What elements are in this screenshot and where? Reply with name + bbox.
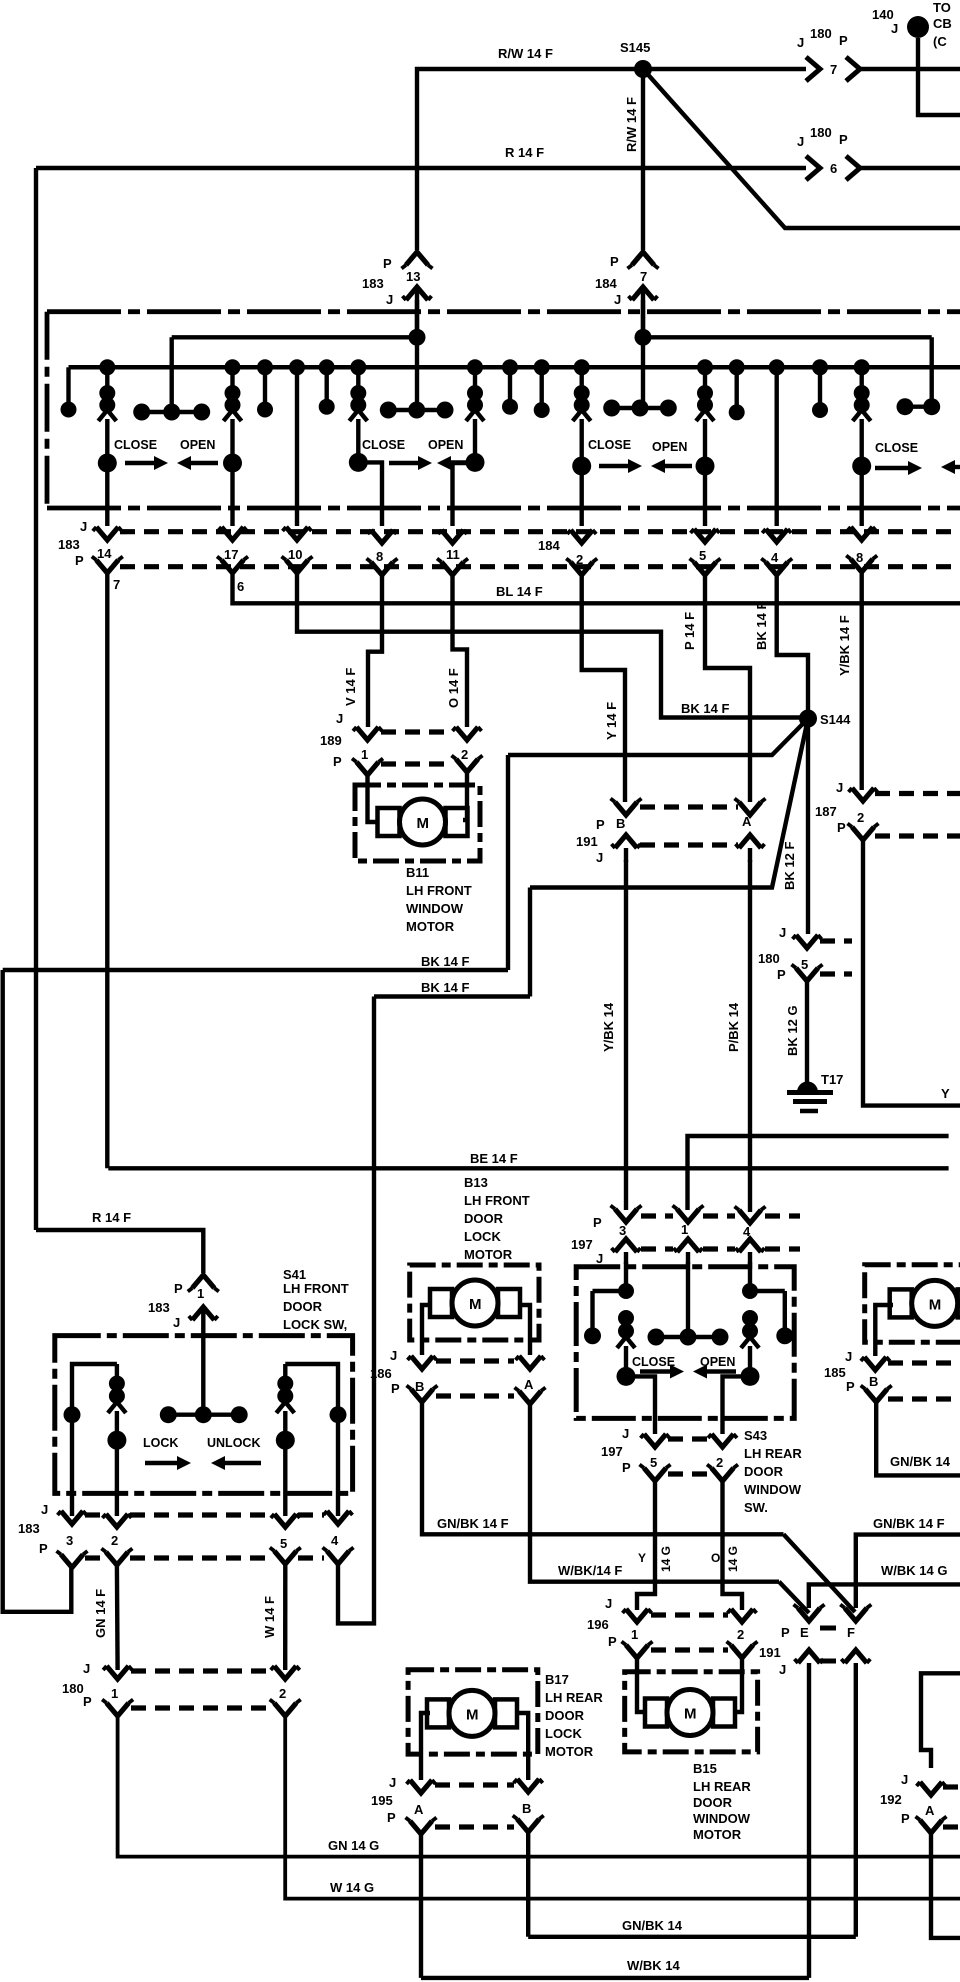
switch S1 common 3-dot row — [142, 410, 202, 414]
svg-text:W/BK 14 G: W/BK 14 G — [881, 1563, 947, 1578]
S43 open wiper wire down — [723, 1376, 751, 1434]
svg-text:J: J — [901, 1772, 908, 1787]
switch S1 close contact column — [99, 359, 115, 375]
wire B17-B down to GN/BK 14 — [526, 1832, 530, 1937]
svg-text:R 14 F: R 14 F — [505, 145, 544, 160]
svg-text:196: 196 — [587, 1617, 609, 1632]
B17 pin wires — [421, 1713, 430, 1780]
svg-text:A: A — [925, 1803, 935, 1818]
svg-text:J: J — [80, 519, 87, 534]
connector 189 pin 1 — [357, 727, 379, 740]
svg-text:J: J — [336, 711, 343, 726]
S43 close arrow — [640, 1369, 674, 1373]
svg-text:W/BK 14: W/BK 14 — [627, 1958, 681, 1973]
wire GN/BK 14 F from B13-B — [422, 1402, 784, 1534]
svg-text:P: P — [383, 256, 392, 271]
svg-text:O: O — [711, 1551, 720, 1565]
through wire pin10 top — [289, 359, 305, 375]
wire R 14 F horizontal — [36, 166, 806, 170]
connector J187 pin 2 — [852, 788, 874, 801]
wire W/BK/14 F from B13-A — [530, 1404, 779, 1582]
svg-text:8: 8 — [376, 549, 383, 564]
svg-text:P: P — [781, 1625, 790, 1640]
svg-text:2: 2 — [737, 1627, 744, 1642]
svg-text:P: P — [777, 967, 786, 982]
BK 14 F wire 2 horizontal — [374, 994, 530, 998]
S3 pins down — [580, 466, 584, 526]
svg-text:M: M — [469, 1296, 482, 1313]
stub contact x820 — [812, 359, 828, 375]
svg-text:LH REAR: LH REAR — [693, 1779, 751, 1794]
J184 pin 8 — [851, 527, 873, 540]
svg-text:187: 187 — [815, 804, 837, 819]
wire pin14 down long (to BE line) — [105, 573, 109, 1168]
svg-text:P: P — [333, 754, 342, 769]
connector 191 pin E — [798, 1608, 820, 1621]
svg-text:5: 5 — [801, 957, 808, 972]
arrow close S1 — [125, 461, 158, 465]
S4 pin down — [860, 466, 864, 526]
right motor pin wire — [875, 1305, 893, 1356]
svg-text:W 14 F: W 14 F — [262, 1596, 277, 1638]
svg-text:OPEN: OPEN — [428, 438, 463, 452]
wire F down to GN/BK 14 bottom — [854, 1674, 858, 1937]
svg-text:LH FRONT: LH FRONT — [406, 883, 472, 898]
svg-text:192: 192 — [880, 1792, 902, 1807]
svg-text:180: 180 — [758, 951, 780, 966]
svg-text:GN/BK 14 F: GN/BK 14 F — [437, 1516, 509, 1531]
connector J180 pin 5 to ground — [796, 935, 818, 948]
wire pin10 to S144 — [297, 573, 806, 718]
svg-text:183: 183 — [18, 1521, 40, 1536]
svg-text:189: 189 — [320, 733, 342, 748]
S43 pin4 column — [748, 1262, 752, 1291]
svg-text:LOCK: LOCK — [545, 1726, 582, 1741]
B13 motor — [410, 1265, 539, 1340]
svg-text:Y: Y — [638, 1551, 646, 1565]
wire E down to W/BK 14 bottom — [807, 1674, 811, 1978]
svg-text:BK 14 F: BK 14 F — [754, 602, 769, 650]
svg-text:B11: B11 — [406, 865, 429, 880]
svg-text:MOTOR: MOTOR — [406, 919, 455, 934]
switch S3 close contact column — [574, 359, 590, 375]
connector 189 pin 2 — [456, 727, 478, 740]
svg-text:LH FRONT: LH FRONT — [464, 1193, 530, 1208]
wire after pin6 to right edge — [860, 166, 960, 170]
svg-text:MOTOR: MOTOR — [464, 1247, 513, 1262]
svg-text:TO: TO — [933, 0, 951, 15]
svg-text:2: 2 — [716, 1455, 723, 1470]
svg-text:Y/BK 14 F: Y/BK 14 F — [837, 615, 852, 676]
svg-text:CLOSE: CLOSE — [588, 438, 631, 452]
B13 pin wires — [422, 1305, 429, 1355]
wire GN/BK 14 F right segment — [856, 1535, 960, 1608]
svg-text:184: 184 — [595, 276, 617, 291]
svg-text:LH REAR: LH REAR — [744, 1446, 802, 1461]
S2 open wiper elbow to pin11 — [453, 462, 476, 526]
svg-text:P: P — [837, 820, 846, 835]
connector 183 pin 13 — [406, 252, 428, 265]
stub contact x265 — [257, 359, 273, 375]
svg-text:(C: (C — [933, 34, 947, 49]
J183 pin 14 — [96, 527, 118, 540]
S41 center wire and 3-dot common — [201, 1340, 205, 1415]
B15 motor — [625, 1672, 758, 1752]
switch S1 open contact column — [225, 359, 241, 375]
wire Y 14 F pin2-184 to 191-B — [582, 575, 625, 802]
svg-text:191: 191 — [759, 1645, 781, 1660]
svg-text:S145: S145 — [620, 40, 650, 55]
svg-text:186: 186 — [370, 1366, 392, 1381]
ground T17 — [797, 1082, 818, 1093]
stub contact x510 — [502, 359, 518, 375]
splice S145 — [634, 60, 652, 78]
J183 pin 8 — [371, 530, 393, 543]
switch S2 open contact column — [467, 359, 483, 375]
wire Y/BK 14 from 191-B down to S43-3 — [624, 860, 628, 1210]
svg-text:WINDOW: WINDOW — [744, 1482, 802, 1497]
J183 pin 10 — [286, 527, 308, 540]
svg-text:J: J — [390, 1348, 397, 1363]
svg-text:J: J — [797, 35, 804, 50]
191 EF dashed rows — [820, 1626, 846, 1631]
svg-text:P: P — [622, 1460, 631, 1475]
svg-text:J: J — [614, 292, 621, 307]
svg-text:P: P — [610, 254, 619, 269]
svg-text:M: M — [684, 1706, 697, 1723]
svg-text:OPEN: OPEN — [180, 438, 215, 452]
svg-text:1: 1 — [681, 1222, 688, 1237]
switch S3 common 3-dot row — [612, 406, 669, 410]
svg-text:WINDOW: WINDOW — [693, 1811, 751, 1826]
svg-text:BE 14 F: BE 14 F — [470, 1151, 518, 1166]
stub contact x541 — [534, 359, 550, 375]
svg-text:CLOSE: CLOSE — [875, 441, 918, 455]
svg-text:183: 183 — [58, 537, 80, 552]
wire after pin7 to right edge — [860, 67, 960, 71]
wire B17-A down to W/BK 14 — [419, 1834, 423, 1978]
svg-text:O 14 F: O 14 F — [446, 668, 461, 708]
switch S4 common pair — [905, 405, 932, 409]
svg-text:B: B — [522, 1801, 531, 1816]
svg-text:140: 140 — [872, 7, 894, 22]
svg-text:P: P — [83, 1694, 92, 1709]
svg-text:UNLOCK: UNLOCK — [207, 1436, 260, 1450]
switch S2 close contact column — [350, 359, 366, 375]
svg-text:B15: B15 — [693, 1761, 717, 1776]
svg-text:183: 183 — [362, 276, 384, 291]
svg-text:Y/BK 14: Y/BK 14 — [601, 1002, 616, 1052]
arrow open S1 — [187, 461, 218, 465]
wire R/W 14 F from window switch to S145 — [417, 69, 643, 250]
right motor box (RH) — [865, 1265, 960, 1343]
arrow open S2 — [447, 461, 480, 465]
svg-text:J: J — [779, 925, 786, 940]
svg-text:M: M — [417, 815, 430, 832]
svg-text:Y: Y — [941, 1086, 950, 1101]
splice S144 — [799, 710, 817, 728]
connector 183 pin 1 (S41) — [192, 1275, 214, 1288]
svg-text:B: B — [616, 816, 625, 831]
svg-text:BK 14 F: BK 14 F — [421, 954, 469, 969]
svg-text:CB: CB — [933, 16, 952, 31]
svg-text:LH REAR: LH REAR — [545, 1690, 603, 1705]
vertical of BK ground wire 1 — [506, 755, 510, 970]
svg-text:J: J — [605, 1596, 612, 1611]
wire P/BK 14 from 191-A down to S43-4 — [748, 860, 752, 1212]
svg-text:J: J — [83, 1661, 90, 1676]
S43 open arrow — [703, 1369, 736, 1373]
connector 191 pin F — [845, 1608, 867, 1621]
svg-text:17: 17 — [224, 547, 238, 562]
arrow close S2 — [389, 461, 422, 465]
wire W/BK 14 right segment — [809, 1584, 960, 1608]
svg-text:LH FRONT: LH FRONT — [283, 1281, 349, 1296]
svg-text:P: P — [593, 1215, 602, 1230]
through wire pin4 top — [769, 359, 785, 375]
wire from circuit breaker down and right — [918, 38, 960, 115]
svg-text:MOTOR: MOTOR — [545, 1744, 594, 1759]
arrow close S4 — [875, 466, 912, 470]
svg-text:J: J — [797, 134, 804, 149]
svg-text:W 14 G: W 14 G — [330, 1880, 374, 1895]
wire 192-A down to bottom right — [931, 1833, 960, 1938]
svg-text:P/BK 14: P/BK 14 — [726, 1002, 741, 1052]
svg-text:P: P — [839, 33, 848, 48]
svg-text:GN 14 F: GN 14 F — [93, 1589, 108, 1638]
wire GN/BK 14 bottom — [528, 1935, 856, 1939]
svg-text:LOCK SW,: LOCK SW, — [283, 1317, 347, 1332]
S43 pin3 column — [624, 1262, 628, 1291]
svg-text:3: 3 — [619, 1223, 626, 1238]
svg-text:2: 2 — [111, 1533, 118, 1548]
svg-text:P: P — [39, 1541, 48, 1556]
svg-text:6: 6 — [830, 161, 837, 176]
switch assembly dash-dot border bottom — [47, 506, 960, 511]
connector J180 pin 6 (inline) — [806, 156, 820, 180]
svg-text:M: M — [466, 1706, 479, 1723]
svg-text:13: 13 — [406, 269, 420, 284]
svg-text:180: 180 — [810, 26, 832, 41]
svg-text:2: 2 — [857, 810, 864, 825]
B17 motor — [408, 1670, 538, 1754]
svg-text:BK 14 F: BK 14 F — [681, 701, 729, 716]
B11 motor — [355, 785, 480, 861]
wire S145 down to connector 184 — [641, 69, 645, 250]
svg-text:2: 2 — [461, 747, 468, 762]
svg-text:B: B — [869, 1374, 878, 1389]
svg-text:F: F — [847, 1625, 855, 1640]
vertical of BK ground wire 2 — [528, 888, 532, 997]
wire BK 12 G to T17 — [805, 981, 809, 1086]
B11 pin wires — [368, 775, 378, 822]
svg-text:A: A — [742, 814, 752, 829]
wire BL 14 F pin17 — [233, 573, 960, 603]
diagonal ground wire 1 from S144 — [508, 719, 808, 756]
switch assembly dash-dot border top — [47, 309, 960, 314]
svg-text:A: A — [524, 1377, 534, 1392]
wire W/BK 14 bottom — [421, 1976, 809, 1980]
J183 pin 17 — [222, 527, 244, 540]
svg-text:5: 5 — [650, 1455, 657, 1470]
wire GN 14 G — [118, 1716, 960, 1857]
svg-text:R/W 14 F: R/W 14 F — [498, 46, 553, 61]
wire to connector 192-A from right edge — [921, 1673, 960, 1768]
svg-text:LOCK: LOCK — [143, 1436, 178, 1450]
diagonal wire from S145 to right edge — [643, 69, 960, 228]
BK wire 2 vertical to S41 pin4 — [338, 997, 374, 1624]
svg-text:GN 14 G: GN 14 G — [328, 1838, 379, 1853]
svg-text:J: J — [41, 1502, 48, 1517]
svg-text:LOCK: LOCK — [464, 1229, 501, 1244]
B15 pin wires — [637, 1658, 645, 1712]
svg-text:11: 11 — [446, 547, 460, 562]
svg-text:Y 14 F: Y 14 F — [604, 702, 619, 740]
wire W 14 G — [285, 1716, 960, 1899]
wire GN/BK 14 from right motor — [876, 1402, 960, 1475]
svg-text:CLOSE: CLOSE — [114, 438, 157, 452]
J183 pin 11 — [442, 530, 464, 543]
node: jumper wire sections 3-4 common — [635, 329, 652, 346]
wire R 14 F to S41 pin1 — [36, 1230, 203, 1273]
svg-text:P: P — [596, 817, 605, 832]
svg-text:GN/BK 14 F: GN/BK 14 F — [873, 1516, 945, 1531]
diagonal GN/BK to F — [784, 1534, 856, 1612]
wire W 14 F S41-5 to J180-2 — [283, 1564, 287, 1670]
switch assembly dash-dot border left — [45, 312, 50, 508]
svg-text:191: 191 — [576, 834, 598, 849]
P row chevrons — [96, 560, 118, 573]
BK wire 1 left vertical to S41 pin3 — [3, 970, 72, 1612]
svg-text:S144: S144 — [820, 712, 851, 727]
J row dashed line — [120, 529, 960, 534]
svg-text:BK 12 G: BK 12 G — [785, 1005, 800, 1056]
connector J180 pin 7 (inline) — [806, 57, 820, 81]
svg-text:4: 4 — [771, 550, 779, 565]
S1 pins down through border — [105, 463, 109, 526]
svg-text:3: 3 — [66, 1533, 73, 1548]
diagonal ground wire 2 from S144 — [530, 719, 808, 888]
svg-text:1: 1 — [631, 1627, 638, 1642]
J184 pin 5 — [694, 529, 716, 542]
svg-text:197: 197 — [571, 1237, 593, 1252]
S41 right contact column — [285, 1364, 338, 1415]
svg-text:V 14 F: V 14 F — [343, 668, 358, 706]
stub contact x736 — [729, 359, 745, 375]
supply bus wire in switch — [69, 365, 960, 370]
svg-text:180: 180 — [62, 1681, 84, 1696]
wire to S43 pin1 top — [688, 1136, 949, 1210]
connector 191 pin B — [615, 802, 637, 815]
svg-text:P 14 F: P 14 F — [682, 612, 697, 650]
BK 14 F wire 1 horizontal — [3, 968, 508, 972]
wire R/W 14 F from S145 to connector — [643, 67, 806, 71]
svg-text:DOOR: DOOR — [744, 1464, 784, 1479]
wire V 14 F pin8 to B11-1 — [368, 575, 382, 727]
svg-text:7: 7 — [640, 269, 647, 284]
arrow open S4 partial — [951, 465, 960, 469]
S41 pin wires down — [70, 1415, 74, 1516]
arrow close S3 — [599, 464, 632, 468]
svg-text:S43: S43 — [744, 1428, 767, 1443]
wire Y/BK 14 F pin8-184 to J187 — [860, 572, 864, 790]
P row dashed line — [120, 564, 960, 569]
J184 pin 4 — [766, 529, 788, 542]
wire P 14 F pin5-184 to 191-A — [705, 575, 750, 802]
svg-text:E: E — [800, 1625, 809, 1640]
wire BK 12 F S144 down to J180-5 — [806, 719, 810, 935]
svg-text:M: M — [929, 1296, 942, 1313]
stub contact x326 — [319, 359, 335, 375]
svg-text:DOOR: DOOR — [545, 1708, 585, 1723]
svg-text:MOTOR: MOTOR — [693, 1827, 742, 1842]
wire Y/BK down right side — [863, 840, 960, 1106]
wire S43-5 to connector 196-1 — [637, 1481, 655, 1610]
S2 close wiper elbow to pin8 — [358, 462, 382, 526]
circuit breaker 140 — [907, 16, 929, 38]
S43 box dash-dot — [576, 1267, 794, 1419]
svg-text:S41: S41 — [283, 1267, 306, 1282]
191 dashed rows — [640, 804, 738, 809]
svg-text:J: J — [836, 780, 843, 795]
svg-text:SW.: SW. — [744, 1500, 768, 1515]
switch S2 common 3-dot row — [388, 408, 445, 412]
wire R 14 F down left side — [34, 168, 38, 1230]
S41 left contact column — [72, 1364, 117, 1415]
svg-text:J: J — [845, 1349, 852, 1364]
svg-text:CLOSE: CLOSE — [362, 438, 405, 452]
svg-text:180: 180 — [810, 125, 832, 140]
wire BE 14 F — [108, 1166, 948, 1170]
svg-text:W/BK/14 F: W/BK/14 F — [558, 1563, 622, 1578]
svg-text:183: 183 — [148, 1300, 170, 1315]
wire S43-2 to connector 196-2 — [723, 1481, 743, 1610]
J184 pin 2 — [571, 530, 593, 543]
svg-text:184: 184 — [538, 538, 560, 553]
svg-text:OPEN: OPEN — [652, 440, 687, 454]
S43 close wiper wire down — [626, 1376, 655, 1434]
svg-text:J: J — [596, 850, 603, 865]
189 dashed rows — [381, 729, 453, 734]
svg-text:A: A — [414, 1802, 424, 1817]
svg-text:R 14 F: R 14 F — [92, 1210, 131, 1225]
svg-text:P: P — [846, 1379, 855, 1394]
svg-text:BK 14 F: BK 14 F — [421, 980, 469, 995]
svg-text:T17: T17 — [821, 1072, 843, 1087]
svg-text:B13: B13 — [464, 1175, 488, 1190]
svg-text:1: 1 — [197, 1286, 204, 1301]
svg-text:P: P — [391, 1381, 400, 1396]
svg-text:WINDOW: WINDOW — [406, 901, 464, 916]
svg-text:P: P — [901, 1811, 910, 1826]
svg-text:CLOSE: CLOSE — [632, 1355, 675, 1369]
svg-text:1: 1 — [111, 1686, 118, 1701]
svg-text:GN/BK 14: GN/BK 14 — [890, 1454, 951, 1469]
svg-text:J: J — [622, 1426, 629, 1441]
diagonal W/BK to E — [779, 1582, 809, 1613]
svg-text:BK 12 F: BK 12 F — [782, 842, 797, 890]
svg-text:DOOR: DOOR — [464, 1211, 504, 1226]
svg-text:7: 7 — [830, 62, 837, 77]
svg-text:14 G: 14 G — [726, 1546, 740, 1572]
switch S3 open contact column — [697, 359, 713, 375]
svg-text:5: 5 — [699, 548, 706, 563]
svg-text:BL 14 F: BL 14 F — [496, 584, 543, 599]
svg-text:10: 10 — [288, 547, 302, 562]
S43 center column 3-dot — [686, 1262, 690, 1337]
svg-text:J: J — [386, 292, 393, 307]
svg-text:14: 14 — [97, 546, 112, 561]
